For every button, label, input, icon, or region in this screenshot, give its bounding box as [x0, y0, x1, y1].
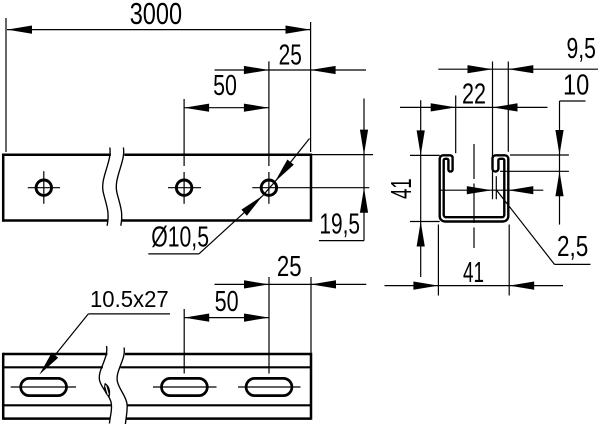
50 top dim line [184, 107, 269, 109]
41 left dim down arrow [417, 130, 425, 155]
bottom view: break line right [117, 348, 127, 425]
25 top dim right arrow (outside) [311, 66, 336, 74]
svg-text:25: 25 [277, 251, 302, 283]
41 left dim line (vertical) [420, 100, 422, 277]
22 dim line [400, 106, 548, 108]
Ø10,5 arrow at hole lower-left edge [241, 196, 262, 216]
slot 2 (10.5x27) [162, 378, 208, 395]
bottom view: bar right edge [310, 353, 313, 420]
extension line at lip bottom (10) [500, 170, 569, 172]
25 top dim left arrow (outside) [244, 66, 269, 74]
hole 3 vertical extension line [268, 61, 270, 166]
svg-text:41: 41 [463, 257, 484, 289]
bottom view: bar top edge [3, 353, 311, 356]
svg-text:50: 50 [215, 286, 239, 318]
svg-text:10: 10 [563, 69, 589, 101]
hole 2 (round Ø10,5) [176, 180, 191, 195]
section vertical centerline [473, 144, 475, 248]
19,5 dim line (vertical) [363, 99, 365, 241]
41 left dim: bottom extension line [410, 221, 440, 223]
bottom view: break line left [99, 346, 111, 424]
19,5 dim jog line [319, 240, 364, 242]
svg-text:25: 25 [279, 40, 302, 72]
10.5x27 leader arrow at slot 1 [39, 353, 58, 375]
41 bottom dim: right extension line [508, 225, 510, 296]
10.5x27 text underline [88, 313, 170, 315]
svg-text:22: 22 [462, 78, 486, 110]
2,5 dim: second tick extension line [495, 176, 497, 199]
3000 dim: left extension line [5, 18, 7, 152]
Ø10,5 leader line (upper) [275, 139, 310, 182]
bottom view: lower fold line [3, 404, 311, 406]
top view: break line right [116, 148, 123, 226]
svg-text:3000: 3000 [130, 0, 182, 31]
25 bottom dim line [215, 283, 367, 285]
41 left dim: top extension line [410, 154, 440, 156]
svg-text:9,5: 9,5 [567, 33, 596, 65]
2,5 dim right arrow [508, 186, 533, 194]
svg-text:10.5x27: 10.5x27 [90, 286, 169, 312]
svg-text:41: 41 [386, 178, 418, 199]
svg-text:50: 50 [213, 70, 237, 102]
2,5 dim left arrow [467, 186, 492, 194]
10.5x27 leader line [54, 314, 89, 357]
channel cross-section outline [440, 155, 509, 221]
25 bottom dim left arrow (outside) [244, 280, 269, 288]
hole 2 centerlines [168, 172, 201, 204]
41 bottom dim right arrow (outside) [509, 282, 534, 290]
50 top dim right arrow [244, 104, 269, 112]
bottom view: bar bottom edge [3, 417, 311, 420]
slot 3 vertical extension line [268, 277, 270, 374]
extension line at wall outer edge (9,5) [507, 62, 509, 152]
Ø10,5 text underline [148, 253, 199, 255]
2,5 leader line [497, 190, 555, 264]
top view: break line left [103, 148, 110, 226]
2,5 text underline [555, 263, 591, 265]
41 bottom dim left arrow (outside) [413, 282, 438, 290]
slot 1 centerline [11, 386, 76, 388]
bottom view: upper fold line [3, 366, 311, 368]
19,5 dim down arrow [360, 130, 368, 155]
50 bottom dim line [184, 317, 269, 319]
22 dim left arrow (outside) [431, 103, 456, 111]
slot 2 centerline [153, 386, 217, 388]
50 bottom dim left arrow [184, 314, 209, 322]
extension line at lip inner edge (9,5 / 22 / 2,5) [492, 62, 494, 200]
Ø10,5 leader line (lower) [199, 196, 263, 254]
bottom view: bar left edge [2, 353, 5, 420]
extension line at section top edge (10) [510, 154, 569, 156]
25 bottom dim right arrow (outside) [311, 280, 336, 288]
slot 3 (10.5x27) [246, 378, 292, 395]
3000 dim left arrow [7, 26, 32, 34]
top view: bar left edge [2, 154, 5, 222]
hole 1 centerlines [28, 171, 60, 204]
hole 3 (round Ø10,5) [261, 180, 276, 195]
svg-text:19,5: 19,5 [319, 209, 360, 241]
50 top dim left arrow [184, 104, 209, 112]
50 bottom dim right arrow [244, 314, 269, 322]
bottom view: break cut sliver at slot [104, 383, 110, 397]
22 dim right arrow (outside) [493, 103, 518, 111]
extension line at left lip inner edge (22) [455, 96, 457, 154]
25 bottom dim: right extension line (bar end) [310, 277, 312, 353]
Ø10,5 dim line through hole 3 [263, 182, 275, 196]
9,5 dim left arrow (outside) [468, 65, 493, 73]
slot 3 centerline [238, 386, 301, 388]
3000 dim line [7, 29, 311, 31]
2,5 dim line (horizontal) [441, 189, 544, 191]
top view: bar bottom edge [3, 219, 311, 222]
hole 3 centerlines (horizontal extended for 19,5 dim) [252, 172, 369, 204]
hole 1 (round Ø10,5) [36, 180, 51, 195]
3000 dim / 25 dim: right extension line (bar end) [310, 22, 312, 152]
19,5 dim up arrow [360, 188, 368, 213]
top view: bar top edge [3, 153, 311, 156]
slot 1 (10.5x27) [21, 378, 67, 395]
10 dim down arrow [555, 130, 563, 155]
9,5 dim line [438, 68, 598, 70]
Ø10,5 arrow at hole upper-right edge [275, 160, 294, 182]
3000 dim right arrow [286, 26, 311, 34]
25 top dim line [215, 69, 367, 71]
9,5 dim right arrow (outside) [508, 65, 533, 73]
41 left dim up arrow [417, 222, 425, 247]
10 dim jog line [560, 100, 586, 102]
svg-text:Ø10,5: Ø10,5 [151, 221, 209, 253]
slot 2 vertical extension line [183, 309, 185, 374]
top view: bar right edge [310, 154, 313, 222]
10 dim line lower tail [559, 171, 561, 224]
10 dim line (vertical) [559, 101, 561, 171]
19,5 dim: top extension line (bar top edge extended) [312, 154, 374, 156]
hole 2 vertical extension line [183, 99, 185, 166]
svg-text:2,5: 2,5 [557, 231, 588, 263]
41 bottom dim line [385, 285, 564, 287]
41 bottom dim: left extension line [437, 225, 439, 296]
10 dim up arrow [555, 171, 563, 196]
